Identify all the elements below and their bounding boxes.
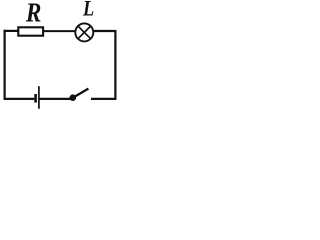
wire bottom-right (corner to switch gap) xyxy=(91,98,116,100)
wire lamp to right corner xyxy=(93,30,116,32)
wire resistor to lamp xyxy=(43,30,76,32)
switch pivot dot xyxy=(70,94,77,101)
wire battery to switch xyxy=(39,98,73,100)
battery long plate xyxy=(38,86,40,109)
wire left vertical xyxy=(3,30,5,100)
wire right vertical xyxy=(114,30,116,100)
switch lever xyxy=(73,89,89,98)
svg-text:L: L xyxy=(82,0,94,21)
svg-text:R: R xyxy=(25,0,41,28)
lamp cross xyxy=(78,26,91,39)
lamp L xyxy=(75,23,93,41)
wire top-left (corner to resistor) xyxy=(4,30,19,32)
battery short plate xyxy=(34,94,37,103)
resistor R xyxy=(18,27,43,35)
wire bottom-left (corner to battery) xyxy=(4,98,35,100)
